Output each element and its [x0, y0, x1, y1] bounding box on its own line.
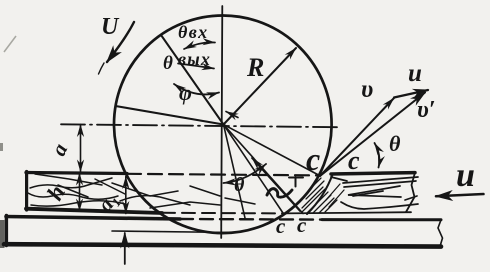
svg-text:u: u — [408, 60, 422, 87]
svg-text:υ′: υ′ — [417, 97, 436, 123]
svg-text:вых: вых — [178, 49, 211, 69]
svg-text:θ: θ — [234, 174, 245, 196]
theta-vyh marker — [178, 64, 214, 69]
svg-text:c: c — [276, 214, 286, 238]
theta marker between V' and surface — [375, 143, 380, 168]
left workpiece block — [26, 173, 127, 174]
horizontal centerline (dash-dot) — [61, 124, 337, 127]
small arrow at vertical line — [226, 112, 238, 118]
theta marker lower-left — [224, 164, 267, 183]
theta-vh marker — [184, 42, 215, 49]
cutter circle — [114, 16, 332, 234]
svg-text:c: c — [297, 213, 307, 237]
base right torn edge — [438, 220, 443, 247]
right workpiece ragged end — [406, 173, 415, 212]
previous tooth path arc — [307, 174, 333, 214]
svg-text:u: u — [456, 157, 475, 194]
svg-text:R: R — [246, 53, 264, 82]
dimension h — [79, 173, 81, 211]
radial line A (exit radius, upper-left) — [161, 35, 224, 125]
T mark — [289, 177, 303, 187]
dimension a1 — [125, 177, 127, 214]
base left edge — [5, 216, 8, 246]
bottom line under cut zone + right block bottom — [284, 212, 411, 213]
vector V' — [320, 93, 425, 177]
radius R with arrow — [224, 48, 297, 125]
svg-text:φ: φ — [179, 80, 192, 105]
squiggle — [267, 189, 292, 198]
feed arrow u right — [436, 194, 484, 196]
svg-text:υ: υ — [361, 76, 373, 103]
svg-text:U: U — [101, 14, 120, 40]
right block wood grain — [331, 177, 418, 209]
vertical centerline — [221, 6, 222, 238]
phi arc marker — [174, 84, 219, 94]
tangent line at circle bottom — [112, 231, 234, 233]
left block wood grain — [28, 174, 255, 208]
radial line B (upper-left shallow) — [116, 106, 224, 125]
chip hatching — [301, 178, 344, 213]
paper edge smudge — [0, 220, 5, 248]
pointer to tangent line from below — [124, 233, 126, 264]
vector u (top) — [394, 90, 428, 98]
radial fan to cutting zone — [224, 125, 284, 214]
dashed bottom line through cutter — [162, 212, 284, 215]
svg-text:θ: θ — [163, 53, 173, 74]
exit velocity arrow in cut zone — [252, 158, 300, 211]
svg-text:θвх: θвх — [178, 22, 209, 42]
dimension a — [80, 125, 82, 173]
svg-text:θ: θ — [389, 131, 401, 156]
vector V — [320, 98, 394, 176]
base plate bottom — [4, 244, 441, 246]
right workpiece block top — [331, 173, 415, 174]
base plate top (solid-dash-solid) — [6, 217, 180, 220]
svg-text:c: c — [348, 146, 360, 175]
rotation arrow U — [107, 22, 134, 62]
dashed surface line through cutter — [127, 174, 318, 176]
svg-text:c: c — [306, 141, 320, 177]
